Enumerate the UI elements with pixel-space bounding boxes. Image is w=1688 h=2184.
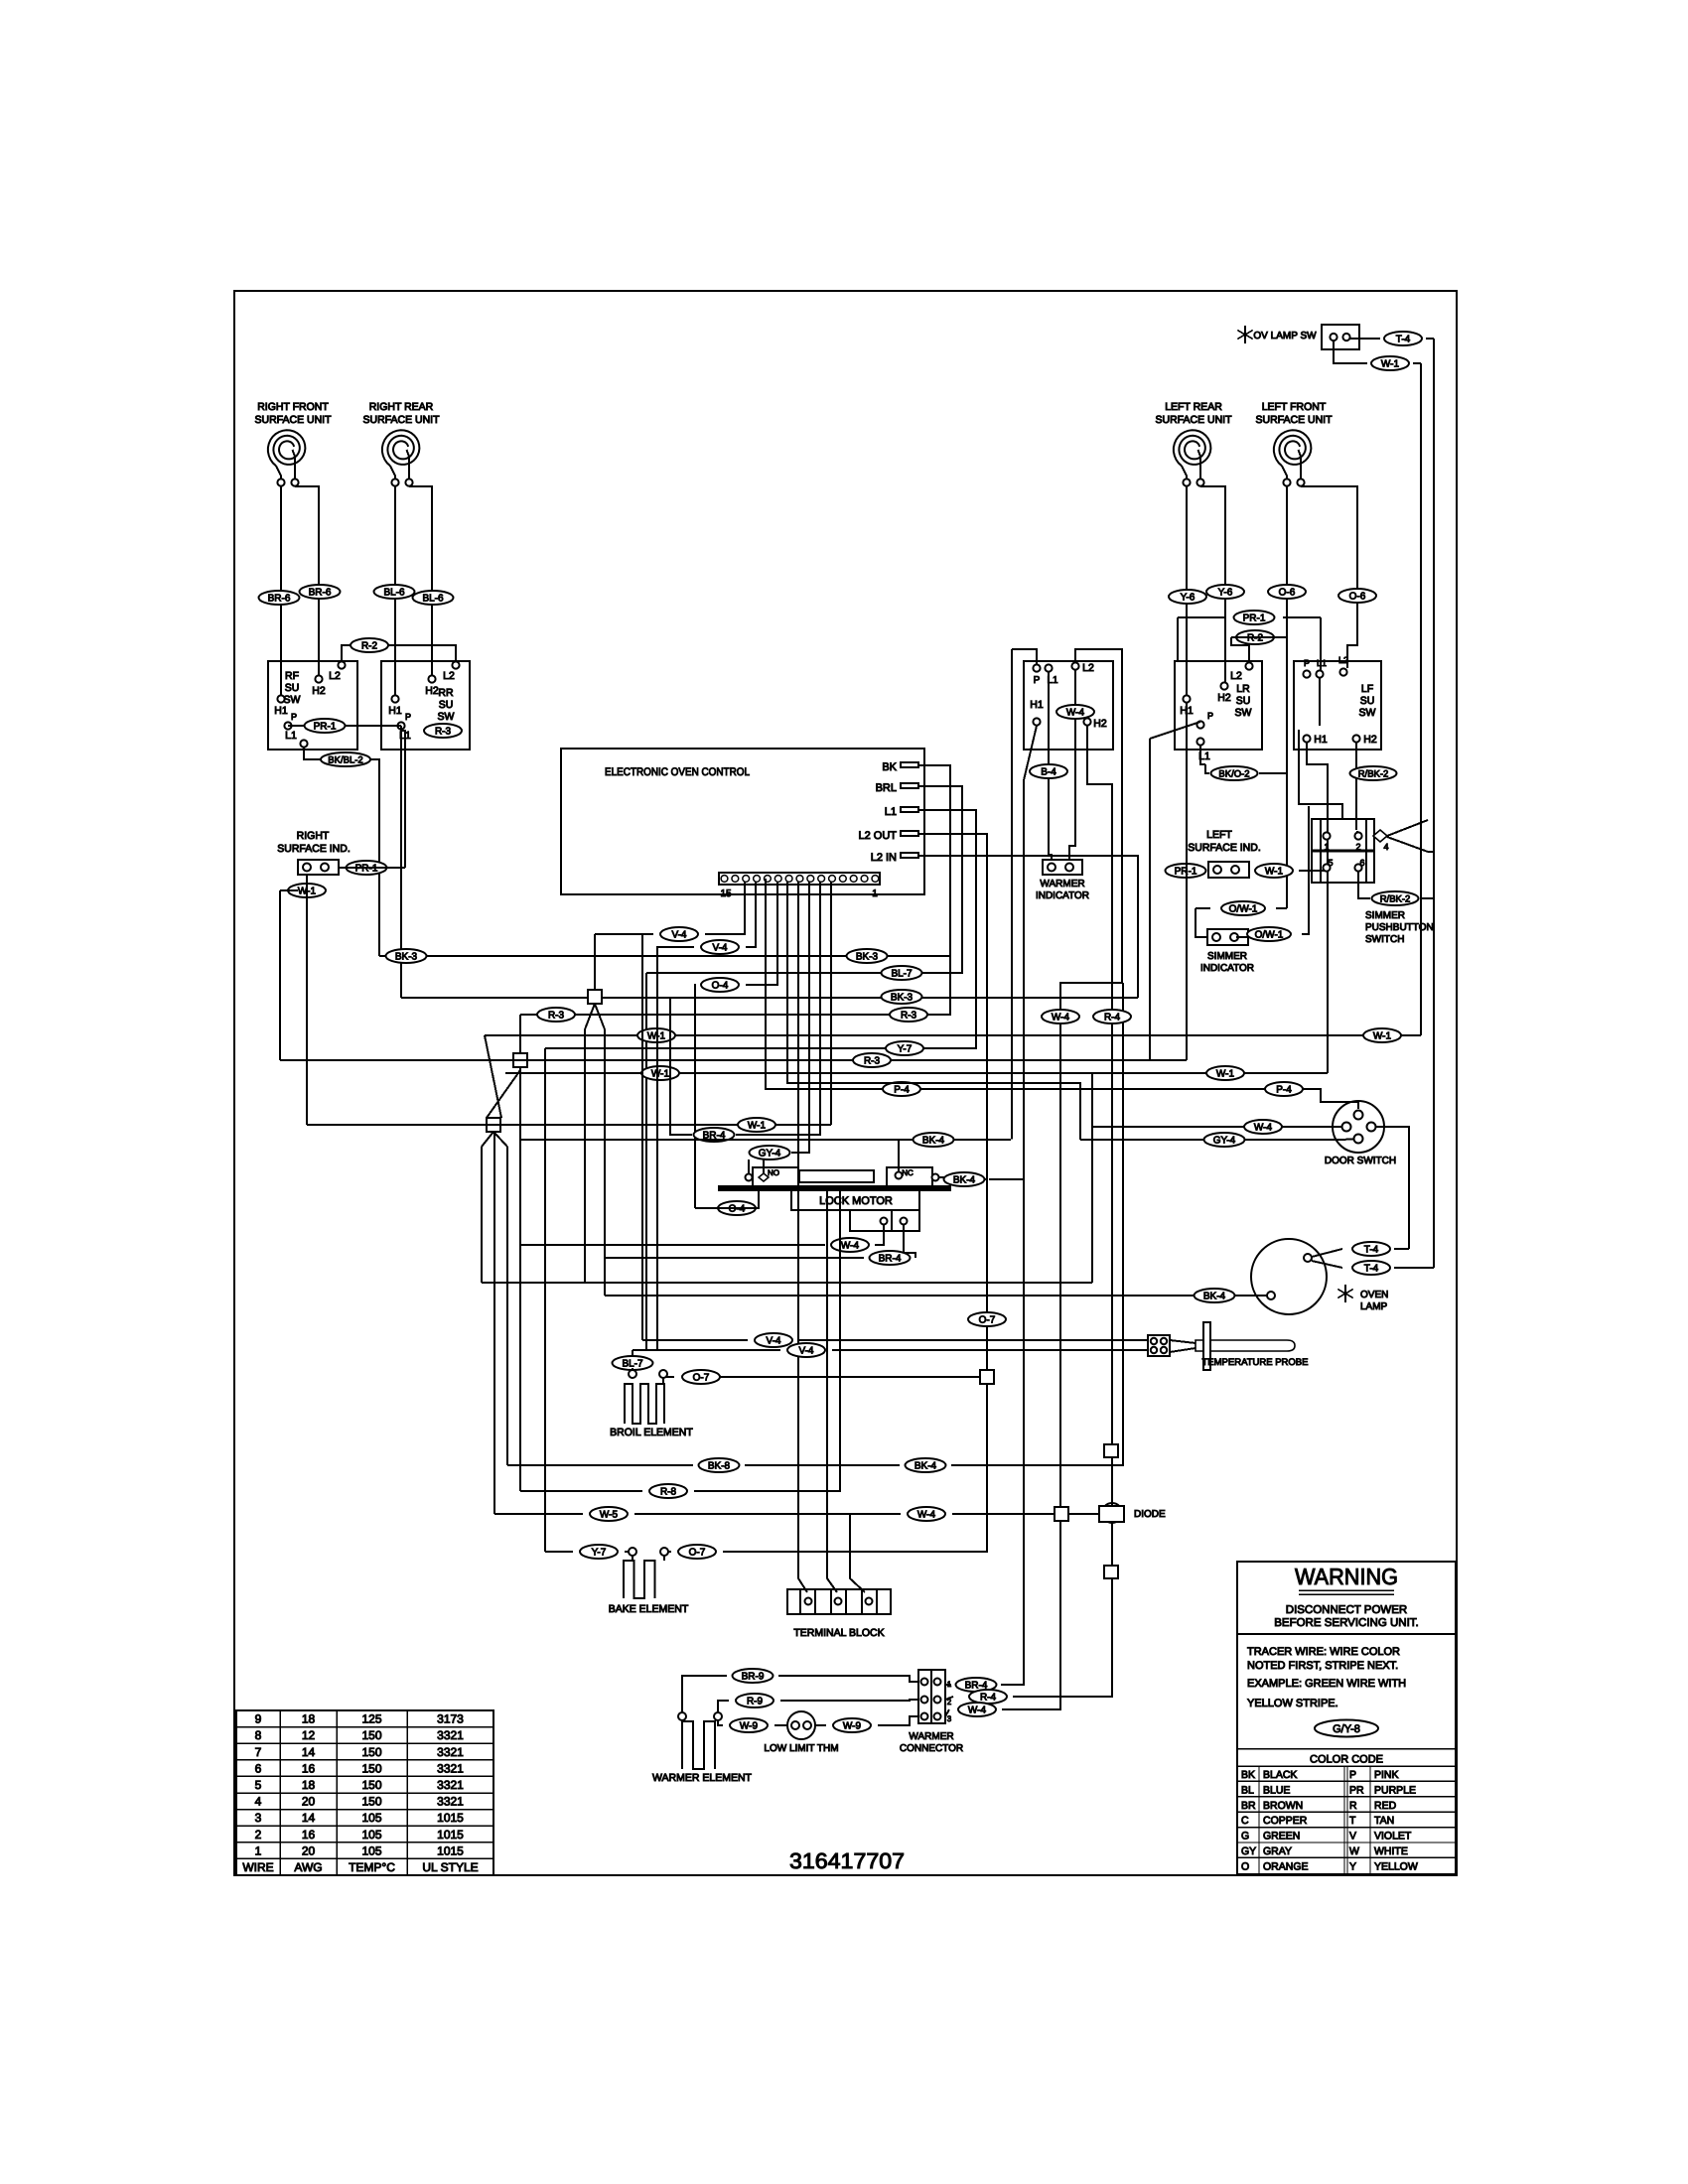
svg-text:LAMP: LAMP [1360,1301,1388,1312]
svg-text:3321: 3321 [437,1795,464,1809]
svg-text:LOCK MOTOR: LOCK MOTOR [819,1195,893,1207]
svg-text:R-9: R-9 [747,1696,764,1706]
label R-4 [969,1690,1007,1704]
label W-1 [288,884,326,897]
svg-text:W-5: W-5 [600,1509,619,1520]
svg-text:BK-4: BK-4 [914,1460,937,1471]
svg-text:LR: LR [1236,683,1250,695]
svg-text:RF: RF [285,670,299,682]
bake element [629,1548,636,1556]
svg-text:BR-4: BR-4 [879,1253,902,1264]
svg-text:Y: Y [1349,1860,1356,1872]
asterisk oven lamp [1337,1285,1353,1302]
wire warmer H2 to diode [1087,726,1112,1444]
svg-text:150: 150 [361,1795,381,1809]
svg-text:LOW LIMIT THM: LOW LIMIT THM [764,1743,838,1754]
label T-4 [1384,332,1422,345]
oven lamp [1251,1239,1327,1314]
svg-text:W-4: W-4 [841,1240,860,1251]
svg-text:YELLOW STRIPE.: YELLOW STRIPE. [1247,1698,1338,1709]
label R-2 [351,638,388,652]
svg-text:P: P [1304,658,1310,668]
svg-text:TAN: TAN [1374,1815,1394,1827]
wire LR H1 down through PR-1 [1186,703,1188,1060]
lock motor mid bar [799,1170,874,1182]
wire LR leads [1186,486,1188,695]
switch RF SU SW [268,661,357,750]
svg-text:R-8: R-8 [660,1486,677,1497]
label BK-3 [882,990,922,1004]
svg-text:BK-4: BK-4 [922,1135,945,1146]
svg-text:G: G [1241,1831,1249,1843]
svg-text:P-4: P-4 [894,1084,910,1095]
svg-text:5: 5 [1328,858,1333,868]
svg-text:OVEN: OVEN [1360,1290,1388,1300]
svg-text:RIGHT REAR: RIGHT REAR [369,401,434,413]
svg-text:T: T [1349,1815,1356,1827]
svg-text:WARMER ELEMENT: WARMER ELEMENT [652,1772,753,1784]
label R-9 [736,1694,774,1707]
label O-7 [682,1370,720,1384]
diode body [1102,1503,1122,1523]
svg-text:WHITE: WHITE [1374,1845,1408,1857]
svg-text:BK-8: BK-8 [708,1460,731,1471]
fork below A [585,1004,595,1029]
label R-3 [424,724,462,738]
svg-text:150: 150 [361,1728,381,1742]
svg-text:LEFT: LEFT [1206,829,1232,841]
label BK-3 [847,949,888,963]
svg-text:V-4: V-4 [712,942,727,953]
label P-4 [883,1082,920,1096]
svg-text:1: 1 [1324,842,1329,852]
svg-text:P-4: P-4 [1276,1084,1292,1095]
svg-text:ORANGE: ORANGE [1263,1860,1309,1872]
svg-text:3321: 3321 [437,1778,464,1792]
label BL-7 [882,966,922,980]
svg-text:18: 18 [302,1778,316,1792]
svg-text:H2: H2 [1093,718,1107,730]
label V-4 [755,1333,792,1347]
svg-text:GREEN: GREEN [1263,1831,1300,1843]
svg-text:BK-4: BK-4 [953,1174,976,1185]
label BK-8 [699,1458,740,1472]
wire door switch right [1375,1127,1409,1249]
wire BK-3 lower bus [401,997,1138,999]
switch RR SU SW [381,661,470,750]
svg-text:W-4: W-4 [1066,707,1085,718]
label V-4 [787,1343,825,1357]
svg-text:ELECTRONIC OVEN CONTROL: ELECTRONIC OVEN CONTROL [605,766,750,778]
svg-text:4: 4 [255,1795,262,1809]
svg-text:C: C [1241,1815,1249,1827]
svg-text:12: 12 [302,1728,316,1742]
svg-text:L2: L2 [1230,670,1242,682]
wire R-8 riser [839,1190,841,1491]
wire pin5 to 1091 bus [787,882,1080,1140]
svg-text:20: 20 [302,1843,316,1857]
wire V-4 pin11 [746,882,756,947]
svg-text:GY-4: GY-4 [1213,1135,1236,1146]
label BR-6 [300,585,341,599]
wire pin9 W-1 lock bus [830,882,832,1125]
wire O-4 to NO [695,1187,759,1208]
svg-text:H1: H1 [388,705,402,717]
svg-text:18: 18 [302,1712,316,1726]
svg-text:7: 7 [255,1745,262,1759]
wire RF leads [280,486,282,695]
wire lamp T-4 upper [1312,1249,1342,1257]
svg-text:SURFACE IND.: SURFACE IND. [277,843,351,855]
wire RR leads [394,486,396,695]
svg-text:V-4: V-4 [798,1345,813,1356]
svg-text:T-4: T-4 [1364,1263,1379,1274]
wire TB leads [827,1190,837,1592]
lock motor sub box [850,1210,919,1231]
svg-text:SWITCH: SWITCH [1365,934,1404,945]
svg-text:L2 OUT: L2 OUT [858,830,897,842]
svg-text:LF: LF [1361,683,1373,695]
svg-text:TEMPERATURE PROBE: TEMPERATURE PROBE [1202,1357,1309,1368]
svg-text:BL-6: BL-6 [422,593,444,604]
wire L1 to Y-7 [545,810,976,1048]
wire gauge table [236,1710,493,1875]
svg-text:NC: NC [902,1168,914,1177]
svg-text:LEFT REAR: LEFT REAR [1165,401,1222,413]
svg-text:14: 14 [302,1811,316,1825]
junction F [980,1370,994,1384]
svg-text:O-6: O-6 [1279,587,1296,598]
svg-text:6: 6 [255,1761,262,1775]
svg-text:H1: H1 [1314,734,1328,746]
svg-text:2: 2 [255,1828,262,1842]
wire BK-8 bus [507,1464,693,1466]
wire warmer P over top [1012,649,1037,665]
label R/BK-2 [1350,766,1397,780]
wire pin7 GY-4 lock [791,882,809,1153]
wire R-8 bus [520,1490,642,1492]
label R-3 [853,1053,891,1067]
svg-text:R/BK-2: R/BK-2 [1358,768,1389,779]
svg-text:105: 105 [361,1828,381,1842]
svg-text:1015: 1015 [437,1843,464,1857]
svg-text:WARMER: WARMER [909,1731,953,1742]
wire warmer H1 diagonal [1024,726,1037,780]
wire GY-4 warmer-P bus [520,1139,1011,1141]
svg-text:G/Y-8: G/Y-8 [1333,1723,1360,1735]
wire simmer ind right [1236,936,1248,938]
svg-text:R-3: R-3 [901,1010,917,1021]
wire W-5 bus [494,1513,583,1515]
label W-5 [590,1507,628,1521]
svg-text:L2: L2 [1338,655,1348,665]
wire T-4 vertical [1350,338,1380,340]
wire R-4 warmer [945,1697,953,1700]
wire LR P diagonal [1150,722,1200,739]
warmer element [682,1721,715,1769]
label W-1 [738,1118,775,1132]
svg-text:COLOR CODE: COLOR CODE [1310,1754,1383,1766]
svg-text:O-6: O-6 [1349,591,1366,602]
label BK/O-2 [1211,766,1258,780]
svg-text:YELLOW: YELLOW [1374,1860,1418,1872]
label BL-6 [413,591,454,605]
label BK/BL-2 [321,752,370,766]
svg-text:W-9: W-9 [843,1720,862,1731]
svg-text:T-4: T-4 [1364,1244,1379,1255]
wire R-9 [718,1701,729,1712]
svg-text:3173: 3173 [437,1712,464,1726]
label W-4 [958,1703,996,1716]
wire lock motor BR-4 [904,1225,915,1258]
wire BK to BK-3 bus [379,765,950,956]
label BR-6 [259,591,300,605]
label PR-1 [1166,864,1206,878]
wire O-7 horizontal [708,1376,980,1378]
svg-text:SU: SU [1360,695,1375,707]
svg-text:L1: L1 [885,806,897,818]
svg-text:150: 150 [361,1778,381,1792]
svg-text:BR: BR [1241,1800,1256,1812]
wire warmer L1 down to indicator [1049,672,1052,860]
label W-1 [1371,356,1409,370]
warmer control switch [1024,661,1113,750]
junction A [588,990,602,1004]
fork below D [482,1132,493,1147]
wire LF leads internal [1319,678,1321,726]
label V-4 [660,927,698,941]
wire W-1 second bus [505,1072,1328,1074]
svg-text:PUSHBUTTON: PUSHBUTTON [1365,922,1434,933]
label BK-4 [1195,1289,1235,1302]
svg-text:SURFACE UNIT: SURFACE UNIT [1255,414,1333,426]
border frame [234,291,1457,1875]
svg-text:3321: 3321 [437,1745,464,1759]
label G/Y-8 [1315,1720,1378,1737]
crossover X above D [485,1035,501,1118]
wire O-4 pin [746,882,777,985]
label PR-1 [305,719,346,733]
svg-text:P: P [291,712,297,722]
svg-text:EXAMPLE: GREEN WIRE WITH: EXAMPLE: GREEN WIRE WITH [1247,1678,1406,1690]
broil element [629,1370,636,1378]
label PR-1 [1234,611,1275,624]
label Y-7 [580,1545,618,1559]
svg-text:TEMP°C: TEMP°C [349,1860,395,1874]
svg-text:2: 2 [1355,842,1360,852]
svg-text:3: 3 [255,1811,262,1825]
svg-text:SW: SW [1235,707,1252,719]
svg-text:PINK: PINK [1374,1769,1399,1781]
svg-text:INDICATOR: INDICATOR [1200,963,1254,974]
wire W-4 door branch [1092,1126,1341,1128]
label B-4 [1030,764,1067,778]
wire simmer sw 4 diagonals [1387,820,1428,836]
label BK-4 [944,1172,985,1186]
wire O-7 vertical [986,1330,988,1377]
svg-text:BK: BK [1241,1769,1255,1781]
svg-text:T-4: T-4 [1396,334,1411,344]
wire LR L1 down [1200,746,1205,764]
svg-text:BR-6: BR-6 [268,593,291,604]
svg-text:BROIL ELEMENT: BROIL ELEMENT [610,1427,693,1438]
svg-text:BR-9: BR-9 [742,1671,765,1682]
svg-text:DOOR SWITCH: DOOR SWITCH [1325,1156,1396,1166]
label R-3 [537,1008,575,1022]
label T-4 [1352,1261,1390,1275]
warmer indicator [1043,860,1082,875]
svg-text:SURFACE UNIT: SURFACE UNIT [254,414,332,426]
wire warmer L2 over top [1060,649,1122,1507]
svg-text:CONNECTOR: CONNECTOR [900,1743,963,1754]
label BR-4 [956,1678,997,1692]
svg-text:SW: SW [1359,707,1376,719]
svg-text:R-3: R-3 [548,1010,565,1021]
simmer pushbutton switch [1312,819,1374,883]
wire BR-4 long vertical [1023,780,1025,1179]
wire lamp T-4 lower [1312,1261,1342,1268]
wire 1292 bus [482,1282,1092,1284]
svg-text:SW: SW [438,711,455,723]
svg-text:B-4: B-4 [1041,766,1056,777]
wire R-3 bus [520,956,950,1015]
svg-text:P: P [405,712,411,722]
label W-1 [637,1028,675,1042]
label R-8 [649,1484,687,1498]
svg-text:WARNING: WARNING [1295,1564,1398,1589]
wire R-2 right [1231,637,1249,662]
label W-9 [730,1718,768,1732]
svg-text:3: 3 [947,1714,952,1723]
svg-text:L2 IN: L2 IN [871,852,897,864]
wire R-2 L2 jumper [342,645,456,661]
warning box [1237,1562,1456,1874]
label BL-6 [374,585,415,599]
wire lock motor W-4 [875,1225,884,1245]
svg-text:SIMMER: SIMMER [1365,910,1405,921]
svg-text:V: V [1349,1831,1356,1843]
wire BK-4 from NC [939,1177,987,1179]
svg-text:SIMMER: SIMMER [1207,951,1247,962]
svg-text:O: O [1241,1860,1249,1872]
wire W-4 warmer [945,1709,949,1716]
svg-text:P: P [1349,1769,1356,1781]
wire L2 OUT down [918,834,987,1370]
junction E [1055,1507,1068,1521]
wire diode verticals [1111,1457,1113,1506]
svg-text:W-4: W-4 [1052,1012,1070,1023]
svg-text:SURFACE UNIT: SURFACE UNIT [362,414,440,426]
label P-4 [1265,1082,1303,1096]
svg-text:P: P [1207,711,1213,721]
wire LF H1 down to W-1 riser [1307,743,1328,872]
label O-4 [701,978,739,992]
label V-4 [701,940,739,954]
svg-text:W-1: W-1 [651,1068,670,1079]
label T-4 [1352,1242,1390,1256]
svg-text:316417707: 316417707 [789,1848,905,1873]
svg-text:14: 14 [302,1745,316,1759]
svg-text:W-4: W-4 [968,1705,987,1715]
label BK-4 [906,1458,946,1472]
label Y-6 [1206,585,1244,599]
svg-text:DIODE: DIODE [1134,1509,1166,1520]
svg-text:BLUE: BLUE [1263,1784,1290,1796]
wire PR-1 L1 jumper [288,725,401,727]
svg-text:PR-1: PR-1 [1243,613,1266,623]
svg-text:Y-6: Y-6 [1218,587,1233,598]
label R-4 [1093,1010,1131,1024]
svg-text:3321: 3321 [437,1728,464,1742]
svg-text:O/W-1: O/W-1 [1229,903,1258,914]
label W-4 [1244,1120,1282,1134]
svg-text:150: 150 [361,1745,381,1759]
svg-text:RIGHT: RIGHT [297,830,330,842]
wire BR-4 warmer [945,1684,951,1686]
label W-1 [1206,1066,1244,1080]
label O/W-1 [1221,901,1265,915]
color code table [1237,1748,1456,1750]
svg-text:GRAY: GRAY [1263,1845,1292,1857]
svg-text:105: 105 [361,1811,381,1825]
svg-text:W-1: W-1 [1216,1068,1235,1079]
svg-text:W-9: W-9 [740,1720,759,1731]
svg-text:P: P [1034,675,1041,686]
svg-text:125: 125 [361,1712,381,1726]
svg-text:W-1: W-1 [1265,866,1284,877]
wire BL-7 jog [632,1350,633,1355]
wire to simmer top pins [1299,784,1342,819]
EOC connector strip [719,873,880,885]
wire RR L1 down to BK-3 bus [400,726,402,998]
svg-text:NO: NO [768,1168,779,1177]
svg-text:BK: BK [882,761,897,773]
label O-7 [968,1312,1006,1326]
wire left W-1 up branch [279,890,281,1060]
wire W-1 bus [485,1034,1421,1036]
wire GY-4 diag to NO [763,1160,765,1173]
diode [1104,1444,1118,1457]
svg-text:PR: PR [1349,1784,1364,1796]
label O-6 [1268,585,1306,599]
svg-text:H2: H2 [1363,734,1377,746]
svg-text:RR: RR [438,687,454,699]
wire pin6 TB lead [798,882,807,1592]
wire V-4 probe pair [642,1339,748,1341]
svg-text:L2: L2 [329,670,341,682]
svg-text:O-7: O-7 [979,1314,996,1325]
svg-text:L1: L1 [1317,658,1327,668]
wire R/BK-2 from LF H2 [1355,743,1357,830]
svg-text:3321: 3321 [437,1761,464,1775]
wire pin8 BR-4 lock [736,882,820,1135]
warmer connector [918,1670,945,1723]
svg-text:UL STYLE: UL STYLE [422,1860,478,1874]
svg-text:R-4: R-4 [980,1692,997,1703]
label R-3 [890,1008,927,1022]
svg-text:TERMINAL BLOCK: TERMINAL BLOCK [793,1627,884,1639]
svg-text:SU: SU [439,699,454,711]
label BK-4 [914,1133,954,1147]
wire x1099 vertical [1091,1073,1093,1283]
label W-1 [641,1066,679,1080]
wire R-3 from RR L1 to right ind [401,731,405,868]
temperature probe [1148,1335,1170,1356]
svg-text:H2: H2 [1217,692,1231,704]
svg-text:GY: GY [1241,1845,1256,1857]
svg-text:1015: 1015 [437,1828,464,1842]
simmer indicator [1207,929,1248,945]
